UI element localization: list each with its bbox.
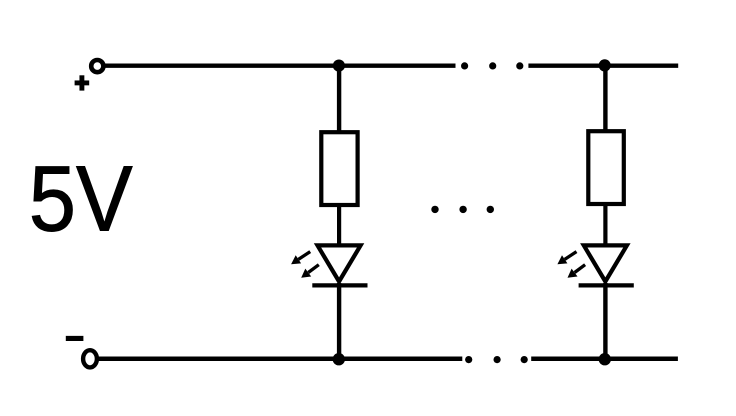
LED D2 triangle xyxy=(584,245,627,281)
LED D2 cathode bar xyxy=(579,283,634,287)
wire: branch 1 bottom (LED to rail) xyxy=(337,283,341,359)
wire: top rail left segment xyxy=(104,64,456,68)
LED D1 emission arrow 1 xyxy=(291,252,310,265)
node: junction branch 1 top xyxy=(333,60,345,72)
wire: branch 1 middle (resistor to LED) xyxy=(337,205,341,247)
LED D1 emission arrow 2 xyxy=(301,265,319,278)
wire: branch 2 top (rail to resistor) xyxy=(603,66,607,132)
node: junction branch 2 bottom xyxy=(599,353,611,365)
LED D1 triangle xyxy=(318,245,361,281)
svg-text:5V: 5V xyxy=(29,147,133,251)
ellipsis dots on top rail xyxy=(461,62,523,69)
terminal: - terminal circle xyxy=(83,350,97,367)
wire: branch 1 top (rail to resistor) xyxy=(337,66,341,133)
LED D2 emission arrow 2 xyxy=(568,265,586,278)
ellipsis dots between branches xyxy=(431,206,494,213)
resistor R2 xyxy=(588,131,624,204)
resistor R1 xyxy=(321,132,357,205)
ellipsis dots on bottom rail xyxy=(465,356,528,363)
wire: bottom rail right segment xyxy=(531,356,678,361)
terminal: + terminal circle xyxy=(91,60,103,72)
label: + sign xyxy=(75,75,90,90)
label: - sign xyxy=(66,336,84,341)
wire: top rail right segment xyxy=(528,64,678,68)
wire: branch 2 bottom (LED to rail) xyxy=(603,283,607,359)
wire: branch 2 middle (resistor to LED) xyxy=(603,204,607,247)
LED D1 cathode bar xyxy=(312,283,367,287)
node: junction branch 1 bottom xyxy=(333,353,345,365)
LED D2 emission arrow 1 xyxy=(557,252,576,265)
node: junction branch 2 top xyxy=(599,59,611,71)
wire: bottom rail left segment xyxy=(97,356,462,361)
